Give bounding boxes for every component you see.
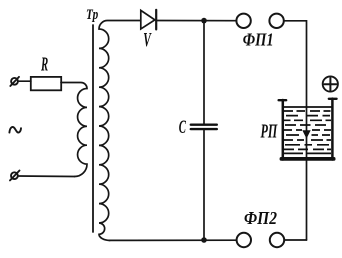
terminal FP1 left <box>236 14 250 28</box>
transformer Tp secondary winding <box>99 21 140 241</box>
svg-text:ФП2: ФП2 <box>244 208 277 228</box>
wire bottom right <box>284 239 306 241</box>
bath liquid surface <box>284 106 331 108</box>
wire capacitor branch <box>203 21 205 240</box>
wire right <box>284 21 307 240</box>
electrolytic bath walls <box>279 99 337 160</box>
terminal FP1 right <box>269 14 283 28</box>
svg-text:РП: РП <box>260 120 278 142</box>
wire <box>18 80 31 82</box>
terminal FP2 left <box>237 233 251 247</box>
svg-text:Тр: Тр <box>86 7 99 23</box>
wire <box>18 175 75 178</box>
bath liquid hatching <box>283 111 331 153</box>
svg-text:ФП1: ФП1 <box>243 29 274 49</box>
svg-text:V: V <box>143 29 152 51</box>
diode V <box>141 10 156 30</box>
resistor R <box>31 77 61 90</box>
svg-text:R: R <box>40 54 48 76</box>
terminal FP2 right <box>270 233 284 247</box>
wire top <box>156 20 236 22</box>
polarity symbol plus <box>323 76 338 91</box>
node junction bottom <box>201 237 207 243</box>
terminal input bottom <box>10 171 20 181</box>
bath bottom <box>280 157 336 161</box>
svg-text:C: C <box>179 117 186 138</box>
terminal input top <box>10 77 19 86</box>
electrode arrow <box>302 130 310 138</box>
transformer Tp primary winding <box>61 83 87 177</box>
capacitor C <box>191 125 217 129</box>
wire bottom <box>109 239 237 241</box>
transformer Tp core <box>92 25 94 232</box>
AC source symbol <box>9 127 21 133</box>
node junction top <box>201 18 207 24</box>
